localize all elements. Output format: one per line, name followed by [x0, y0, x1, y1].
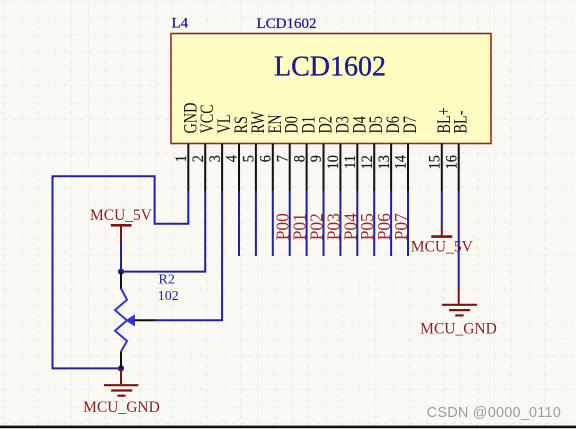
watermark [427, 405, 561, 421]
pin 8 stub [306, 144, 308, 192]
svg-text:BL-: BL- [450, 111, 471, 134]
svg-text:3: 3 [207, 155, 224, 162]
pin 13 stub [390, 144, 392, 192]
pin 9 number [309, 155, 326, 162]
pin 14 stub [407, 144, 409, 192]
svg-text:MCU_5V: MCU_5V [90, 207, 153, 224]
junction node R2 bottom / GND [118, 365, 124, 371]
wire pin1 GND loop [53, 176, 189, 368]
pin 2 stub [204, 144, 206, 192]
pin 12 name D5 [365, 116, 386, 133]
pin 16 number [444, 155, 461, 169]
svg-text:1: 1 [174, 155, 191, 162]
net label P03 [323, 213, 343, 240]
pin 14 number [393, 155, 410, 170]
wire pin 5 dangling [255, 192, 257, 256]
pin 13 number [376, 155, 393, 169]
pin 15 name BL+ [433, 107, 454, 133]
junction node R2 top / 5V [118, 269, 124, 275]
svg-text:D7: D7 [399, 116, 420, 133]
pin 15 stub [441, 144, 443, 192]
pin 16 stub [458, 144, 460, 192]
sheet border bottom line [0, 426, 576, 429]
pin 15 number [427, 155, 444, 169]
power symbol MCU_5V left [90, 207, 153, 244]
wire pin 9 dangling [323, 192, 325, 256]
svg-text:12: 12 [359, 155, 376, 169]
pin 11 stub [356, 144, 358, 192]
net label P06 [374, 213, 394, 240]
pin 5 name RW [247, 111, 268, 133]
svg-text:13: 13 [376, 155, 393, 169]
pin 8 number [292, 155, 309, 162]
value 102 [158, 289, 179, 304]
net label P05 [357, 213, 377, 240]
net label P02 [307, 213, 327, 240]
svg-text:102: 102 [158, 289, 179, 304]
pin 14 name D7 [399, 116, 420, 133]
svg-text:15: 15 [427, 155, 444, 169]
ground symbol MCU_GND left [83, 368, 160, 415]
pin 12 number [359, 155, 376, 169]
svg-text:9: 9 [309, 155, 326, 162]
pin 9 name D2 [315, 116, 336, 133]
wire pin 11 dangling [356, 192, 358, 256]
net label P07 [391, 213, 411, 240]
pin 10 stub [339, 144, 341, 192]
pin 5 number [241, 155, 258, 162]
wire pin3 VL to wiper [154, 192, 222, 321]
pin 10 number [326, 155, 343, 169]
pin 10 name D3 [331, 116, 352, 133]
component L4 LCD1602 body [171, 34, 491, 144]
svg-text:CSDN @0000_0110: CSDN @0000_0110 [427, 405, 561, 421]
svg-text:4: 4 [224, 155, 241, 163]
pin 2 name VCC [196, 104, 217, 133]
pin 3 number [207, 155, 224, 162]
svg-text:7: 7 [275, 155, 292, 163]
svg-text:5: 5 [241, 155, 258, 162]
pin 7 name D0 [281, 116, 302, 133]
svg-text:MCU_5V: MCU_5V [411, 239, 474, 256]
svg-text:16: 16 [444, 155, 461, 169]
pin 7 stub [289, 144, 291, 192]
pin 2 number [190, 155, 207, 162]
svg-text:14: 14 [393, 155, 410, 170]
wire pin16 BL- [458, 192, 460, 289]
pin 8 name D1 [298, 116, 319, 133]
net label P04 [340, 213, 360, 240]
potentiometer R2 [115, 272, 155, 369]
net label P01 [290, 213, 310, 240]
pin 3 name VL [213, 115, 234, 134]
wire pin 10 dangling [339, 192, 341, 256]
svg-text:R2: R2 [159, 273, 175, 288]
wire pin2 VCC to 5V rail [121, 192, 205, 272]
svg-text:MCU_GND: MCU_GND [420, 321, 497, 338]
pin 6 stub [272, 144, 274, 192]
pin 1 number [174, 155, 191, 162]
wire pin 8 dangling [306, 192, 308, 256]
wire pin 6 dangling [272, 192, 274, 256]
pin 1 stub [187, 144, 189, 192]
svg-text:MCU_GND: MCU_GND [83, 399, 160, 416]
wire 5V stem left [120, 243, 122, 272]
pin 1 name GND [179, 103, 200, 134]
wire pin 4 dangling [238, 192, 240, 256]
power symbol MCU_5V right [411, 228, 474, 256]
svg-text:L4: L4 [172, 15, 189, 31]
svg-text:LCD1602: LCD1602 [257, 16, 317, 32]
svg-text:6: 6 [258, 155, 275, 162]
wire pin 13 dangling [390, 192, 392, 256]
wire pin 12 dangling [373, 192, 375, 256]
comment label LCD1602 [257, 16, 317, 32]
ground symbol MCU_GND right [420, 289, 497, 338]
pin 4 number [224, 155, 241, 163]
svg-text:10: 10 [326, 155, 343, 169]
pin 6 number [258, 155, 275, 162]
svg-text:LCD1602: LCD1602 [274, 52, 386, 83]
svg-text:8: 8 [292, 155, 309, 162]
svg-text:2: 2 [190, 155, 207, 162]
wire pin 7 dangling [289, 192, 291, 256]
pin 4 stub [238, 144, 240, 192]
net label P00 [273, 213, 293, 240]
svg-text:11: 11 [343, 155, 360, 169]
pin 11 number [343, 155, 360, 169]
designator L4 [172, 15, 189, 31]
title text LCD1602 [274, 52, 386, 83]
pin 3 stub [221, 144, 223, 192]
designator R2 [159, 273, 175, 288]
pin 4 name RS [230, 116, 251, 133]
pin 16 name BL- [450, 111, 471, 134]
pin 6 name EN [264, 115, 285, 134]
pin 11 name D4 [348, 116, 369, 134]
wire pin 14 dangling [407, 192, 409, 256]
pin 5 stub [255, 144, 257, 192]
pin 7 number [275, 155, 292, 163]
pin 13 name D6 [382, 116, 403, 133]
pin 9 stub [323, 144, 325, 192]
pin 12 stub [373, 144, 375, 192]
wire pin15 BL+ [441, 192, 443, 229]
